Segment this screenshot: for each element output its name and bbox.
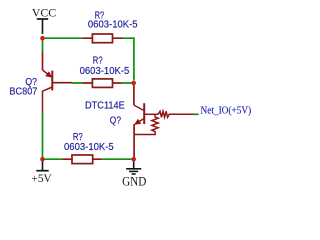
- svg-text:+5V: +5V: [32, 173, 53, 185]
- wire top rail: [45, 37, 134, 39]
- resistor R3 (R? 0603-10K-5): [63, 132, 115, 164]
- power +5V: [32, 159, 53, 185]
- ground GND: [122, 159, 146, 188]
- junction node GND rail: [131, 157, 136, 162]
- R2 internal base-emitter resistor: [134, 114, 158, 134]
- transistor Q2 DTC114E (digital NPN with R1,R2): [85, 83, 194, 158]
- svg-text:DTC114E: DTC114E: [85, 101, 125, 112]
- wire bottom rail: [45, 158, 132, 160]
- junction node R2/Q2 base rail: [131, 81, 136, 86]
- svg-text:Net_IO(+5V): Net_IO(+5V): [201, 106, 252, 117]
- wire left vertical upper: [42, 40, 44, 53]
- junction node +5V rail: [40, 157, 45, 162]
- wire net output: [194, 113, 199, 115]
- R1 internal series base resistor: [155, 111, 193, 117]
- wire left vertical lower: [42, 113, 44, 160]
- resistor R1 (R? 0603-10K-5): [82, 11, 138, 43]
- svg-text:0603-10K-5: 0603-10K-5: [80, 66, 130, 77]
- net label Net_IO(+5V): [201, 106, 252, 117]
- svg-text:GND: GND: [122, 174, 146, 188]
- junction node VCC rail: [40, 36, 45, 41]
- svg-text:BC807: BC807: [9, 86, 37, 97]
- svg-text:0603-10K-5: 0603-10K-5: [64, 142, 114, 153]
- power VCC: [32, 7, 57, 34]
- svg-text:VCC: VCC: [32, 7, 57, 19]
- svg-text:0603-10K-5: 0603-10K-5: [88, 20, 138, 31]
- wire right vertical: [133, 37, 135, 80]
- resistor R2 (R? 0603-10K-5): [80, 56, 130, 88]
- svg-text:Q?: Q?: [110, 116, 122, 127]
- transistor Q1 BC807 (PNP): [9, 52, 72, 113]
- wire mid rail: [72, 82, 132, 84]
